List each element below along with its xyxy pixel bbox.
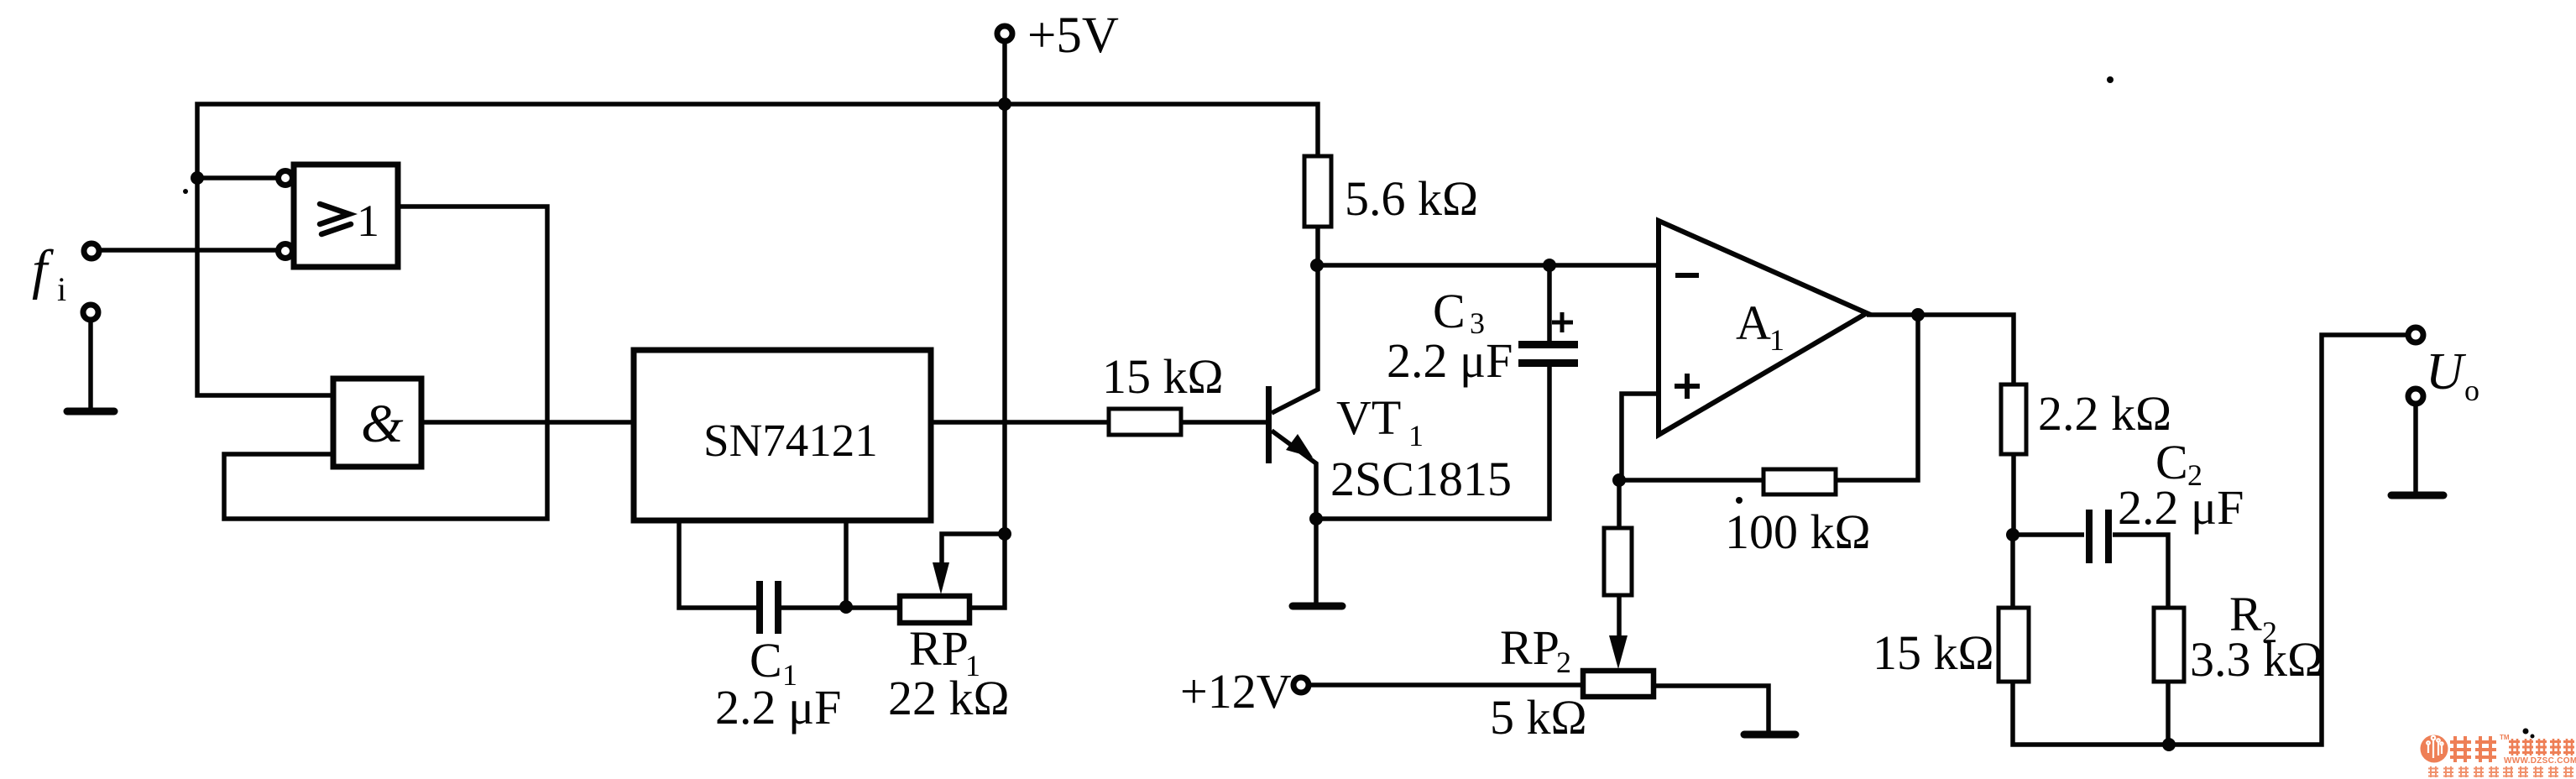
svg-text:2.2 μF: 2.2 μF <box>2118 480 2244 535</box>
svg-text:i: i <box>57 270 66 308</box>
svg-text:2.2 kΩ: 2.2 kΩ <box>2038 386 2171 441</box>
svg-text:U: U <box>2426 343 2467 400</box>
svg-text:WWW.DZSC.COM: WWW.DZSC.COM <box>2504 756 2576 766</box>
svg-text:1: 1 <box>1408 419 1424 452</box>
svg-text:A: A <box>1736 295 1771 350</box>
svg-text:RP: RP <box>909 621 969 676</box>
svg-text:&: & <box>361 394 404 454</box>
svg-text:2: 2 <box>1556 646 1571 679</box>
svg-text:5 kΩ: 5 kΩ <box>1490 690 1587 745</box>
svg-text:TM: TM <box>2500 734 2510 741</box>
svg-text:VT: VT <box>1336 390 1401 445</box>
svg-text:C: C <box>1433 284 1466 338</box>
svg-text:+5V: +5V <box>1027 8 1119 64</box>
svg-text:5.6 kΩ: 5.6 kΩ <box>1345 171 1478 226</box>
svg-text:15 kΩ: 15 kΩ <box>1873 625 1994 680</box>
svg-text:RP: RP <box>1500 620 1560 675</box>
svg-text:SN74121: SN74121 <box>703 415 878 466</box>
svg-text:f: f <box>32 239 54 301</box>
svg-text:15 kΩ: 15 kΩ <box>1102 349 1224 404</box>
svg-text:100 kΩ: 100 kΩ <box>1725 505 1871 559</box>
svg-text:2.2 μF: 2.2 μF <box>715 680 841 735</box>
svg-text:o: o <box>2464 374 2479 407</box>
svg-text:2SC1815: 2SC1815 <box>1330 452 1512 506</box>
svg-text:3.3 kΩ: 3.3 kΩ <box>2190 632 2323 687</box>
svg-text:+12V: +12V <box>1180 664 1292 719</box>
svg-text:1: 1 <box>357 196 379 246</box>
svg-text:2.2 μF: 2.2 μF <box>1387 333 1513 388</box>
svg-text:1: 1 <box>1769 323 1784 357</box>
svg-text:22 kΩ: 22 kΩ <box>888 671 1010 725</box>
